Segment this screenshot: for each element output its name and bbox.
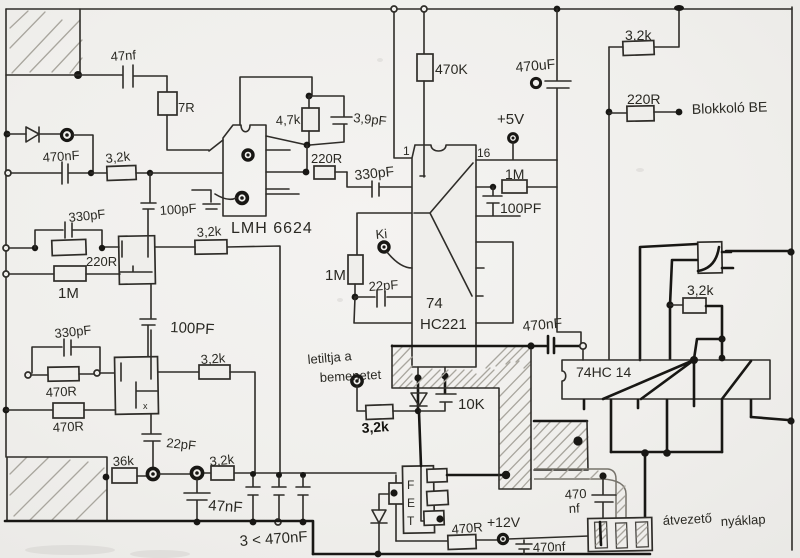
label atvezeto nyaklap <box>662 510 766 529</box>
node M trace <box>599 472 606 479</box>
svg-text:1M: 1M <box>58 285 79 302</box>
capacitor 22pF <box>355 277 411 307</box>
node hatch blob 1 <box>502 471 510 479</box>
transistor FET body <box>402 466 434 534</box>
svg-text:470R: 470R <box>45 383 77 400</box>
svg-text:74HC 14: 74HC 14 <box>576 364 631 380</box>
wire inverter outer loop <box>640 244 697 360</box>
wire hc14 bottom row <box>611 451 722 454</box>
via blob node G <box>191 467 202 478</box>
node D <box>306 93 313 100</box>
capacitor 3,9pF <box>309 96 387 145</box>
op-amp right pin stubs <box>266 136 307 194</box>
terminal top vertical 1 <box>391 6 413 158</box>
wire diode to lower row <box>73 135 93 172</box>
svg-text:1: 1 <box>403 144 410 158</box>
resistor 470R stage2b <box>3 403 115 435</box>
label Blokkolo BE <box>692 98 768 117</box>
svg-text:470K: 470K <box>435 61 468 77</box>
resistor 220R feedback <box>311 151 347 179</box>
FET contact bottom <box>424 511 444 526</box>
svg-text:x: x <box>143 401 148 411</box>
paper smudges <box>25 58 644 558</box>
node A junction <box>74 71 82 79</box>
terminal hc14 pin1 <box>580 343 586 360</box>
svg-text:4,7k: 4,7k <box>275 112 301 128</box>
node C <box>147 170 153 176</box>
resistor 1M stage1 <box>3 266 120 302</box>
wire 1M bottom to IC <box>354 297 411 323</box>
capacitor 470nf supply <box>516 539 566 555</box>
label 3x470nF <box>239 528 308 550</box>
transistor Q1 <box>104 236 195 318</box>
wire 470uF drop <box>557 160 581 343</box>
terminal top vertical 2 <box>421 6 427 54</box>
resistor 3,2k blokkolo <box>609 9 679 56</box>
diode D1 <box>4 127 61 142</box>
svg-text:3,2k: 3,2k <box>200 350 226 367</box>
svg-text:nf: nf <box>568 500 580 516</box>
op-amp U1 LMH6624 <box>209 125 313 237</box>
capacitor 470nF x3 no.1 <box>246 477 260 525</box>
capacitor 470uF <box>515 6 571 160</box>
resistor 1M bias <box>476 166 557 193</box>
hc14 pin stubs below <box>584 400 751 453</box>
transistor FET gate bar <box>389 483 404 504</box>
svg-text:1M: 1M <box>505 166 524 182</box>
resistor 3,2k stage2 <box>199 350 255 475</box>
node hatch blob 2 <box>573 436 582 445</box>
capacitor 47nF <box>184 479 243 525</box>
wire pin16 <box>476 159 557 161</box>
svg-text:10K: 10K <box>458 396 485 413</box>
svg-text:22pF: 22pF <box>166 435 197 453</box>
capacitor 22pF stage2 <box>142 414 197 468</box>
svg-text:470nf: 470nf <box>533 539 566 555</box>
svg-text:470R: 470R <box>52 418 84 435</box>
resistor 36k <box>103 453 147 483</box>
wire row475 <box>159 473 396 474</box>
capacitor 330pF stage2 <box>32 322 100 373</box>
svg-text:100PF: 100PF <box>500 200 541 216</box>
svg-text:220R: 220R <box>627 91 660 107</box>
diode D2 <box>410 367 427 466</box>
wire to connector pad <box>644 453 647 522</box>
svg-text:1M: 1M <box>325 267 346 284</box>
capacitor 470nF x3 no.3 <box>296 477 310 525</box>
svg-text:3,2k: 3,2k <box>687 282 714 298</box>
wire row input top <box>6 74 122 76</box>
ellipse terminal top <box>674 5 684 11</box>
svg-text:LMH 6624: LMH 6624 <box>231 220 313 237</box>
shield hatch mid band <box>392 345 531 489</box>
wire shield top row <box>392 345 528 348</box>
svg-text:470R: 470R <box>451 519 483 537</box>
transistor Q2 <box>115 330 199 414</box>
resistor 220R blokkolo <box>606 91 683 121</box>
shield hatch top-left <box>10 9 82 75</box>
wire hc14 right out <box>751 417 795 425</box>
capacitor 100pF upper-left <box>141 173 197 237</box>
terminal row2 <box>5 170 11 176</box>
svg-text:3,2k: 3,2k <box>625 27 652 43</box>
node B <box>88 170 94 176</box>
svg-text:47nF: 47nF <box>208 497 243 516</box>
svg-text:7R: 7R <box>178 100 195 115</box>
node K <box>718 335 725 342</box>
svg-text:nyáklap: nyáklap <box>720 512 766 529</box>
svg-text:+12V: +12V <box>487 514 521 530</box>
wire 12V row <box>396 540 448 542</box>
wire ground bus lower <box>313 553 650 556</box>
svg-text:3,2k: 3,2k <box>196 223 222 240</box>
node E <box>303 142 311 176</box>
svg-text:47nf: 47nf <box>110 47 137 64</box>
capacitor 100PF mid <box>140 319 215 358</box>
pcb trace curve <box>534 469 626 518</box>
wire ground bus upper <box>5 521 313 554</box>
resistor 220R stage1 <box>52 239 117 269</box>
svg-text:100pF: 100pF <box>159 200 197 218</box>
label letiltja a bemenetet <box>307 348 382 385</box>
svg-text:T: T <box>407 514 415 528</box>
svg-text:100PF: 100PF <box>170 319 215 338</box>
svg-text:36k: 36k <box>112 453 134 469</box>
wire top bus <box>6 8 792 10</box>
wire left border <box>5 9 7 457</box>
node J <box>666 301 673 359</box>
FET contact top <box>427 469 504 483</box>
svg-text:470nF: 470nF <box>42 147 80 165</box>
resistor 470R stage2a <box>25 367 115 400</box>
resistor 4,7k <box>275 96 319 145</box>
svg-text:HC221: HC221 <box>420 316 467 333</box>
svg-text:3,2k: 3,2k <box>361 418 390 436</box>
via blob letiltja <box>352 376 366 411</box>
svg-text:220R: 220R <box>86 254 117 269</box>
capacitor 47nf <box>110 47 167 88</box>
svg-text:+5V: +5V <box>497 111 524 128</box>
wire gate drop <box>395 475 397 541</box>
via blob node F <box>147 468 158 479</box>
resistor 3,2k bottom <box>209 451 236 480</box>
svg-text:Ki: Ki <box>375 226 388 242</box>
svg-text:3,2k: 3,2k <box>209 451 236 469</box>
capacitor 330pF stage1 <box>3 206 106 251</box>
resistor 470R supply <box>448 519 497 549</box>
node L <box>641 449 671 457</box>
capacitor 470nf trace <box>564 479 616 519</box>
IC U2 74HC221 <box>403 144 491 367</box>
via blob <box>62 130 73 141</box>
wire blokkolo column <box>608 47 610 359</box>
wire to opamp <box>150 172 222 174</box>
capacitor 470nF hc14 <box>522 315 579 353</box>
node I <box>527 342 534 349</box>
wire long feed from 3,2k row <box>227 246 280 475</box>
node H <box>250 471 306 478</box>
svg-text:Blokkoló BE: Blokkoló BE <box>692 98 768 117</box>
inverter gate box <box>698 242 733 273</box>
svg-text:3,2k: 3,2k <box>105 148 132 166</box>
svg-text:220R: 220R <box>311 151 342 166</box>
ground symbol opamp <box>192 190 236 209</box>
feedback wire <box>240 77 312 125</box>
wire inverter out <box>726 248 795 255</box>
svg-text:16: 16 <box>477 146 491 160</box>
resistor 1M vertical <box>325 255 363 300</box>
wire IC right loop <box>476 242 513 323</box>
capacitor 470nF x3 no.2 <box>272 478 286 525</box>
power +12V <box>487 514 589 544</box>
node Ki <box>357 213 412 268</box>
capacitor 330pF to IC <box>347 163 411 197</box>
capacitor 470nF <box>11 147 91 184</box>
svg-text:F: F <box>407 478 414 492</box>
capacitor 100PF bias <box>476 187 541 216</box>
resistor 7R <box>158 76 209 150</box>
connector box <box>588 517 653 551</box>
shield hatch bottom-left <box>7 457 107 521</box>
power +5V <box>497 111 524 159</box>
IC U3 74HC14 <box>562 355 770 399</box>
shield hatch lower band <box>534 421 588 470</box>
capacitor 10K <box>420 367 485 413</box>
resistor 3,2k stage1 <box>195 223 227 254</box>
wire right border <box>791 7 793 550</box>
wire inverter inner loop <box>670 260 697 305</box>
resistor 3,2k letiltja <box>361 405 416 436</box>
svg-text:átvezető: átvezető <box>662 510 712 528</box>
diode zener <box>371 494 389 557</box>
FET contact mid <box>427 490 449 505</box>
svg-text:470: 470 <box>564 486 586 502</box>
wire hc14 drop <box>694 339 722 359</box>
svg-text:74: 74 <box>426 295 443 312</box>
resistor 3,2k inverter <box>670 282 722 339</box>
svg-text:E: E <box>407 496 415 510</box>
resistor 470K <box>417 54 468 146</box>
svg-text:22pF: 22pF <box>368 277 399 294</box>
resistor 3,2k input <box>91 148 150 180</box>
